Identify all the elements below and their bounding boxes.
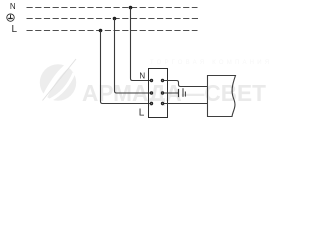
terminal row2 right [161,91,164,94]
wall / cable box with torn edge [208,76,236,117]
dashed supply line PE [27,18,201,20]
svg-text:ТОРГОВАЯ КОМПАНИЯ: ТОРГОВАЯ КОМПАНИЯ [150,60,272,66]
tick mark short [184,92,186,97]
dashed supply line N [27,7,198,9]
wire N drop to terminal row 1 [131,8,152,81]
watermark logo disc [40,59,76,101]
terminal row3 right [161,102,164,105]
terminator bar on row2 stub [178,89,180,97]
terminal row2 left [150,91,153,94]
wire L drop to terminal row 3 [101,31,152,104]
tick mark tall [182,88,184,97]
svg-text:L: L [12,24,18,35]
terminal block box [149,69,168,118]
wire row1 output with jog to wall box [163,81,208,87]
terminal row1 right [161,79,164,82]
node dot on N line [129,6,133,10]
node dot on L line [99,29,103,33]
terminal row3 left [150,102,153,105]
dashed supply line L [27,30,198,32]
svg-text:N: N [10,2,16,11]
wire row3 output to wall box [163,103,208,105]
wire row2 output stub [163,92,179,94]
terminal row1 left [150,79,153,82]
svg-text:N: N [139,72,145,81]
svg-text:L: L [139,107,145,118]
wire PE drop to terminal row 2 [115,19,152,94]
PE earth symbol in circle [7,14,14,21]
node dot on PE line [113,17,117,21]
